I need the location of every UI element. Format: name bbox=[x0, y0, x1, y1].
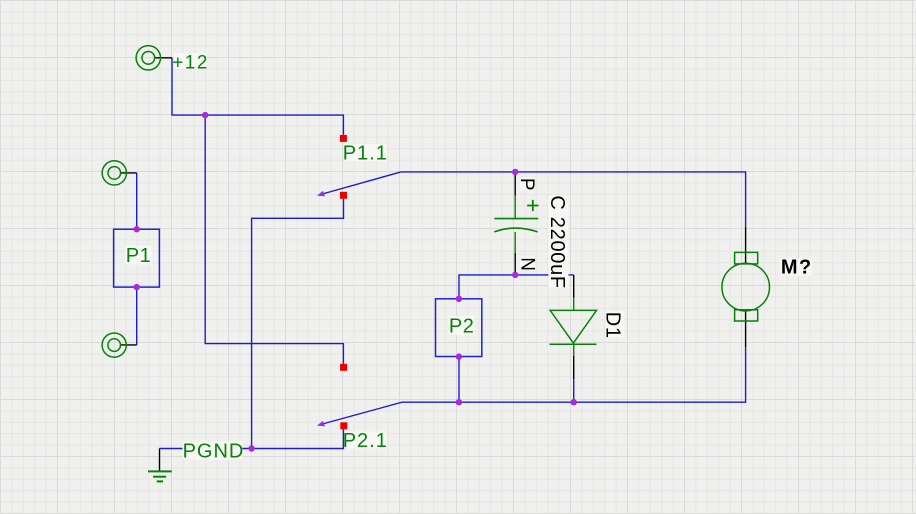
pin square switch1 pivot bbox=[340, 192, 347, 199]
capacitor C positive plate bbox=[494, 218, 538, 220]
svg-text:P1.1: P1.1 bbox=[343, 143, 388, 165]
switch1 arrowhead bbox=[317, 191, 325, 197]
switch2 throw arm (blue diagonal) bbox=[321, 402, 403, 424]
wire bottom rail: switch2 to motor bottom bbox=[402, 347, 746, 402]
svg-text:P: P bbox=[516, 178, 537, 191]
svg-text:D1: D1 bbox=[602, 312, 624, 339]
capacitor pin name P (positive pin) bbox=[520, 177, 535, 191]
pin lead P1 port top bbox=[121, 172, 137, 174]
connector reference label P2 bbox=[449, 316, 475, 335]
capacitor top green lead bbox=[514, 196, 516, 219]
junction node P2 box top bbox=[456, 296, 462, 302]
pin square P1.1 top contact bbox=[340, 135, 347, 142]
diode D1 triangle bbox=[550, 310, 596, 343]
wire +12 net: from +12 port down and right to P1.1 pin square bbox=[172, 58, 343, 135]
junction node P2 on bottom rail bbox=[456, 399, 462, 405]
junction node P2 box bottom bbox=[456, 353, 462, 359]
capacitor bottom green lead bbox=[514, 232, 516, 253]
port P1 bottom bbox=[102, 333, 126, 357]
wire PGND rail: ground to P2.1 pin square bbox=[160, 429, 344, 448]
wire P1 port top to P1 box bbox=[136, 173, 138, 229]
diode bottom green lead bbox=[573, 344, 575, 356]
junction node P1 box top bbox=[134, 226, 140, 232]
pin lead +12 port bbox=[155, 57, 172, 59]
ground symbol PGND bars bbox=[148, 471, 172, 481]
component box P2 bbox=[436, 299, 482, 357]
svg-text:+12: +12 bbox=[172, 52, 209, 73]
junction node diode on bottom rail bbox=[571, 399, 577, 405]
svg-text:P1: P1 bbox=[126, 245, 151, 267]
wire top rail: switch1 to motor top bbox=[401, 172, 746, 227]
svg-text:P2.1: P2.1 bbox=[343, 430, 388, 452]
diode D1 cathode bar bbox=[550, 343, 597, 345]
motor reference label M? bbox=[781, 259, 812, 276]
pin lead diode bottom bbox=[573, 356, 575, 379]
net label P2.1 bbox=[345, 432, 387, 449]
pin lead P1 port bottom bbox=[120, 344, 136, 346]
wire switch1 common to PGND rail bbox=[252, 199, 344, 449]
junction node cap P on top rail bbox=[512, 169, 518, 175]
svg-text:C 2200uF: C 2200uF bbox=[546, 195, 568, 288]
capacitor C negative curved plate bbox=[494, 228, 537, 232]
pin lead capacitor bottom bbox=[514, 253, 516, 273]
connector reference label P1 bbox=[126, 246, 152, 265]
svg-text:P2: P2 bbox=[449, 315, 474, 337]
switch2 arrowhead bbox=[317, 421, 325, 427]
ground net label PGND bbox=[183, 442, 243, 460]
capacitor C polarity plus sign bbox=[527, 200, 538, 211]
junction node on +12 net bbox=[202, 112, 208, 118]
wire P2 bottom to bottom rail bbox=[458, 357, 460, 403]
junction node on PGND rail bbox=[248, 445, 254, 451]
wire diode bottom to rail bbox=[573, 379, 575, 402]
svg-text:M?: M? bbox=[781, 257, 813, 279]
pin lead ground bbox=[159, 449, 161, 472]
junction node P1 box bottom bbox=[134, 284, 140, 290]
diode reference label D1 bbox=[606, 311, 625, 338]
pin lead diode top bbox=[573, 275, 575, 298]
junction node cap N on mid rail bbox=[512, 272, 518, 278]
diode top green lead bbox=[573, 298, 575, 311]
switch1 throw arm (blue diagonal) bbox=[321, 172, 401, 195]
port P1 top bbox=[102, 161, 126, 185]
net label P1.1 bbox=[345, 144, 387, 161]
capacitor pin name N (negative pin) bbox=[520, 257, 534, 270]
wire +12 net branch: junction down to lower contact square bbox=[205, 115, 343, 364]
motor M? symbol body bbox=[722, 252, 770, 321]
capacitor value label C 2200uF bbox=[549, 196, 569, 288]
wire mid rail: P2 top, cap N, diode anode bbox=[459, 275, 574, 299]
pin lead motor bottom bbox=[745, 311, 747, 347]
power port +12 bbox=[136, 46, 160, 70]
pin lead capacitor top bbox=[514, 175, 516, 196]
svg-text:PGND: PGND bbox=[183, 441, 245, 463]
pin square P2.1 switch2 pivot bbox=[340, 422, 347, 429]
power net label +12 bbox=[174, 53, 207, 69]
pin lead motor top bbox=[745, 227, 747, 263]
wire P1 box to P1 port bottom bbox=[136, 287, 138, 345]
component box P1 bbox=[114, 229, 160, 287]
svg-text:N: N bbox=[517, 257, 538, 271]
pin square lower contact bbox=[340, 364, 347, 371]
